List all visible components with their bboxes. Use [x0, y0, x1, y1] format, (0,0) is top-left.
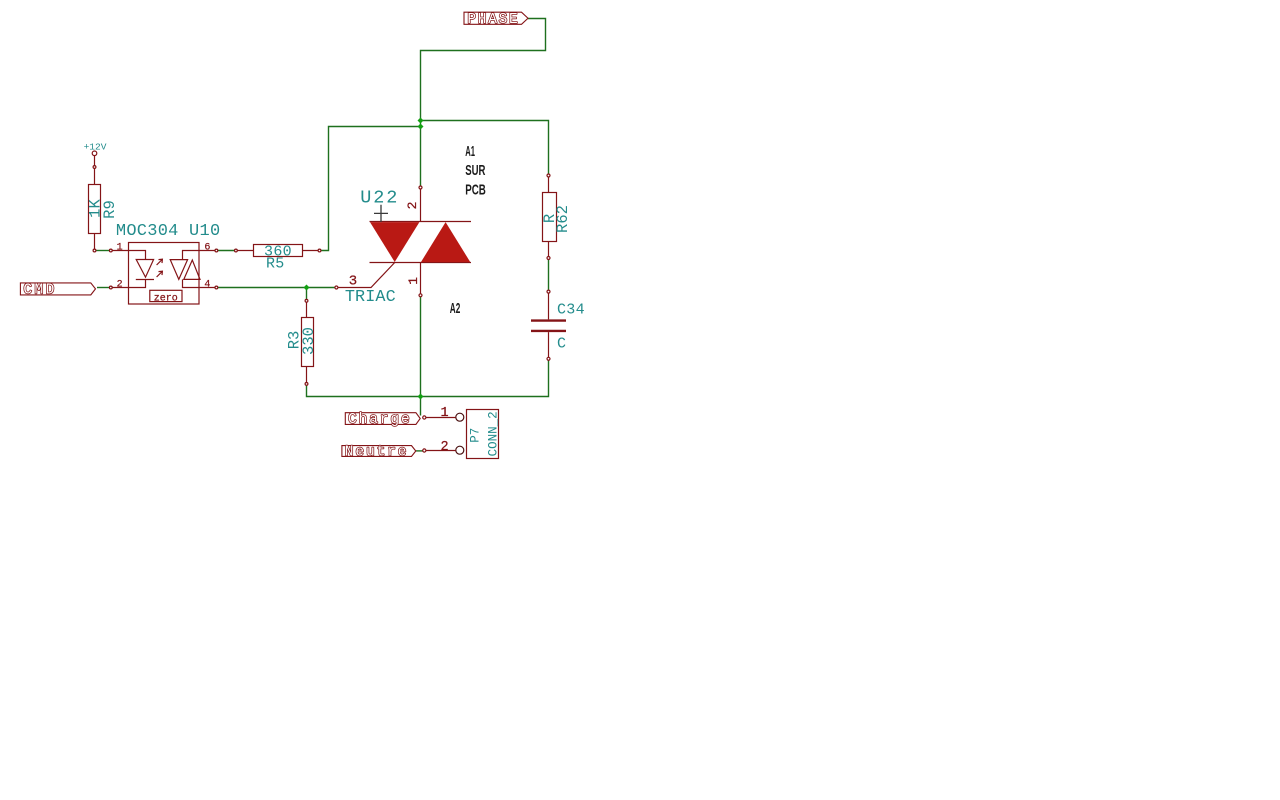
svg-text:CONN_2: CONN_2	[486, 411, 500, 456]
svg-text:zero: zero	[154, 293, 178, 304]
svg-text:Neutre: Neutre	[345, 444, 409, 460]
svg-text:A2: A2	[450, 300, 461, 317]
svg-text:PHASE: PHASE	[467, 12, 519, 28]
svg-text:6: 6	[204, 243, 210, 254]
svg-text:C: C	[557, 335, 566, 352]
svg-text:3: 3	[349, 274, 357, 290]
svg-text:TRIAC: TRIAC	[345, 288, 396, 307]
svg-text:2: 2	[117, 279, 123, 290]
svg-text:MOC304 U10: MOC304 U10	[116, 222, 221, 241]
svg-text:1: 1	[406, 277, 421, 285]
svg-text:R62: R62	[554, 205, 572, 233]
svg-text:2: 2	[405, 202, 420, 210]
svg-text:CMD: CMD	[23, 282, 56, 298]
svg-text:C34: C34	[557, 302, 585, 319]
svg-text:1: 1	[440, 406, 448, 421]
svg-text:R9: R9	[101, 200, 119, 219]
svg-text:P7: P7	[469, 428, 483, 443]
svg-text:+12V: +12V	[84, 141, 107, 152]
svg-text:330: 330	[300, 327, 318, 355]
svg-text:4: 4	[204, 279, 210, 290]
svg-text:1: 1	[117, 243, 123, 254]
svg-text:U22: U22	[360, 187, 399, 208]
svg-text:SUR: SUR	[465, 162, 485, 179]
svg-text:PCB: PCB	[465, 182, 486, 199]
svg-text:2: 2	[440, 440, 448, 455]
svg-text:Charge: Charge	[348, 412, 412, 428]
svg-text:A1: A1	[465, 143, 475, 160]
svg-text:R5: R5	[266, 255, 285, 272]
